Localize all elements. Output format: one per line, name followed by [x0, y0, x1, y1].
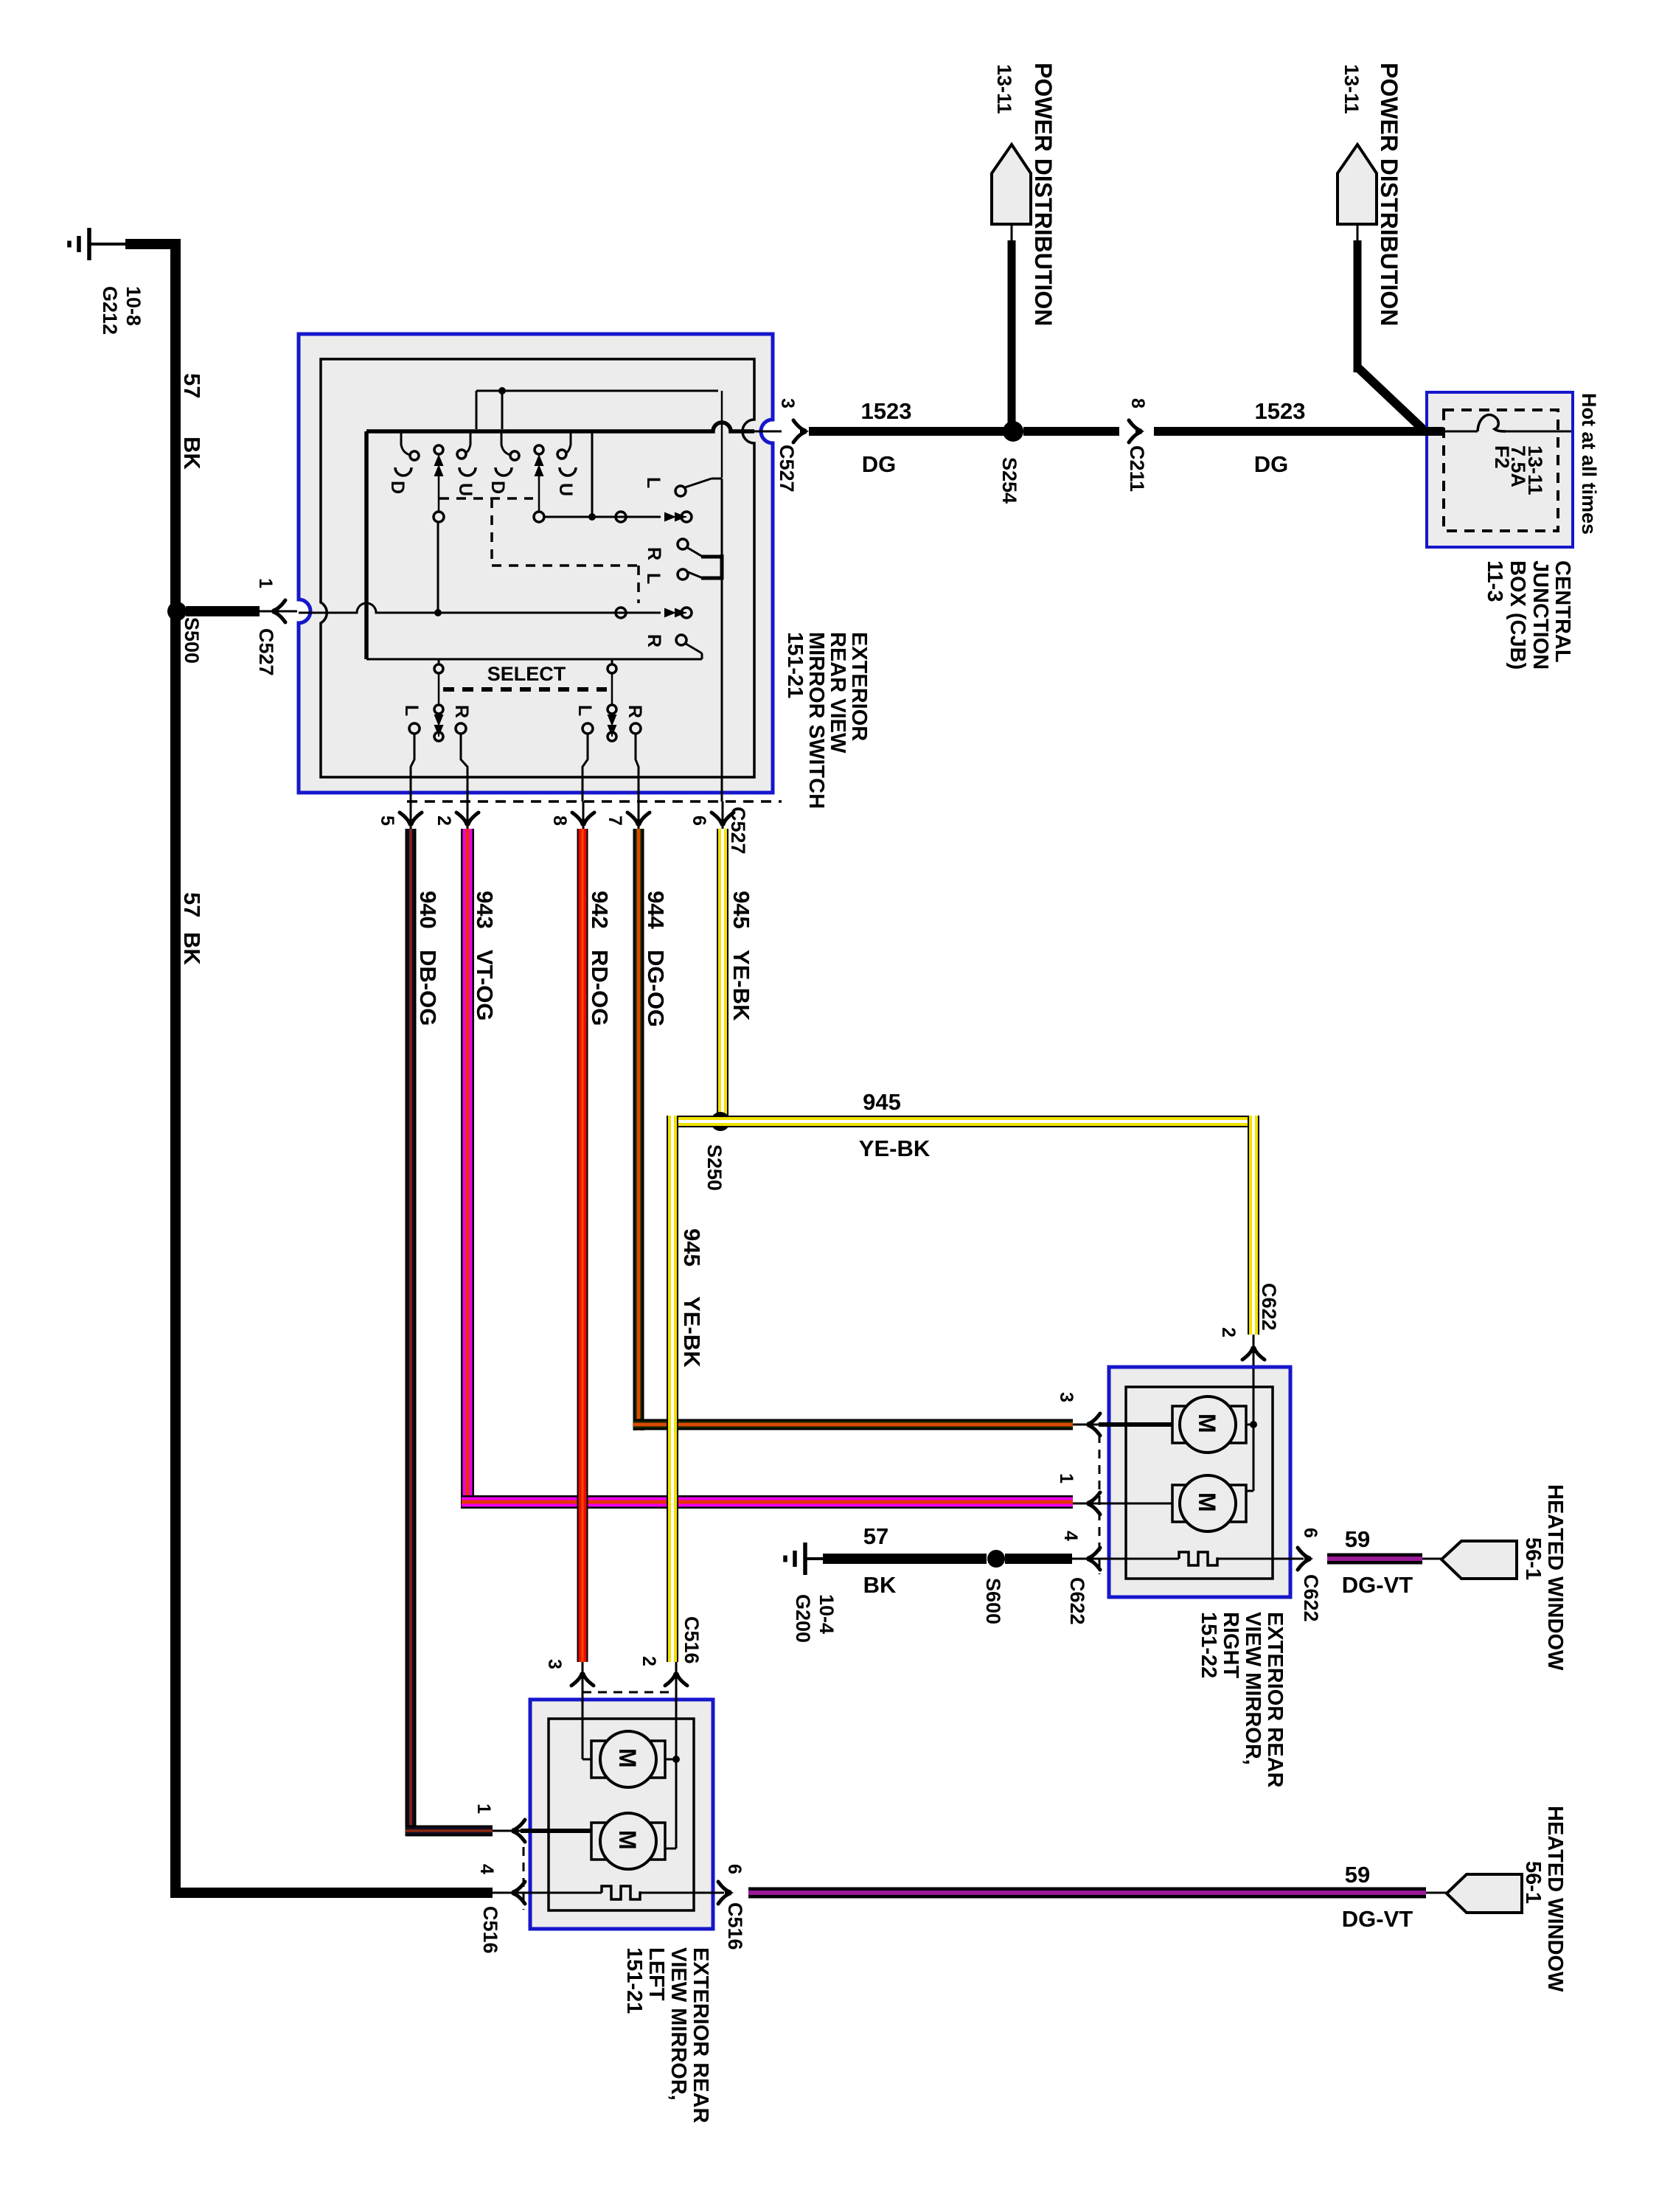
svg-text:HEATED WINDOW: HEATED WINDOW	[1543, 1806, 1567, 1992]
svg-text:57: 57	[179, 373, 205, 398]
svg-text:R: R	[644, 547, 664, 560]
contact cup U of group 731	[560, 467, 576, 476]
svg-text:1523: 1523	[1255, 398, 1306, 424]
connector arrow C527 pin 1	[270, 600, 285, 622]
svg-text:VIEW MIRROR,: VIEW MIRROR,	[667, 1947, 690, 2101]
svg-text:C527: C527	[776, 445, 798, 493]
svg-text:R: R	[451, 705, 472, 718]
svg-text:M: M	[1194, 1492, 1220, 1512]
svg-text:S250: S250	[703, 1144, 726, 1191]
svg-text:C527: C527	[255, 628, 277, 676]
svg-text:L: L	[574, 705, 595, 716]
svg-text:DG-VT: DG-VT	[1342, 1906, 1413, 1932]
right mirror heater element	[1096, 1558, 1179, 1560]
switch line y701 to upper R pole	[544, 516, 661, 518]
svg-text:3: 3	[544, 1659, 565, 1669]
svg-text:59: 59	[1345, 1526, 1370, 1552]
svg-text:13-11: 13-11	[993, 64, 1015, 114]
wire 940 DB-OG	[406, 829, 417, 1836]
svg-text:13-11: 13-11	[1340, 64, 1363, 114]
wire 943 VT-OG	[461, 829, 474, 1509]
svg-text:G212: G212	[99, 286, 121, 335]
svg-text:BK: BK	[863, 1572, 897, 1598]
svg-text:DB-OG: DB-OG	[415, 950, 441, 1026]
splice S600	[987, 1550, 1005, 1568]
switch D/U group at x=595	[401, 431, 410, 455]
svg-text:JUNCTION: JUNCTION	[1528, 560, 1552, 669]
svg-text:LEFT: LEFT	[644, 1947, 668, 2001]
svg-text:59: 59	[1345, 1862, 1370, 1888]
svg-text:YE-BK: YE-BK	[859, 1135, 931, 1161]
svg-text:DG-VT: DG-VT	[1342, 1572, 1413, 1598]
svg-text:EXTERIOR REAR: EXTERIOR REAR	[1263, 1612, 1287, 1788]
svg-text:944: 944	[643, 891, 669, 929]
wire 944 DG-OG	[633, 829, 644, 1430]
R/L middle contact blades and node	[678, 539, 688, 549]
ground G212	[69, 228, 108, 260]
svg-text:4: 4	[476, 1864, 497, 1874]
svg-text:RD-OG: RD-OG	[587, 950, 613, 1026]
svg-text:BK: BK	[179, 437, 205, 470]
svg-text:C622: C622	[1066, 1577, 1088, 1625]
exterior rear view mirror switch box	[299, 334, 773, 793]
C527 pin 5 arrow	[410, 801, 412, 830]
svg-text:M: M	[614, 1748, 641, 1768]
svg-text:56-1: 56-1	[1521, 1861, 1545, 1904]
left mirror motor 1	[582, 1700, 584, 1759]
right mirror pin 6 arrow	[1298, 1548, 1313, 1570]
svg-text:D: D	[387, 481, 408, 494]
svg-text:CENTRAL: CENTRAL	[1551, 560, 1574, 663]
switch pin 3 arrow C527	[793, 420, 809, 442]
svg-text:2: 2	[1218, 1327, 1239, 1338]
ground G200	[785, 1543, 824, 1575]
lower R pole (horizontal)	[664, 608, 686, 618]
svg-text:57: 57	[863, 1523, 888, 1549]
fuse wire and element F2	[1424, 427, 1444, 436]
svg-text:5: 5	[377, 815, 397, 826]
svg-text:1: 1	[473, 1804, 494, 1814]
svg-text:3: 3	[777, 398, 798, 408]
svg-text:C211: C211	[1126, 445, 1148, 492]
svg-text:R: R	[625, 705, 645, 718]
right mirror inner outline	[1126, 1387, 1273, 1579]
SELECT switch at x=830	[611, 659, 613, 664]
svg-text:POWER DISTRIBUTION: POWER DISTRIBUTION	[1030, 63, 1057, 326]
svg-text:L: L	[643, 477, 664, 488]
connector C622 pin 2 arrow	[1253, 1335, 1255, 1368]
C527 pin 6 arrow	[722, 801, 724, 830]
svg-text:57: 57	[179, 892, 205, 917]
power distribution connector 1	[992, 145, 1031, 224]
power distribution connector 2	[1338, 145, 1377, 224]
svg-text:6: 6	[724, 1864, 745, 1874]
svg-text:151-21: 151-21	[783, 632, 807, 698]
svg-text:DG-OG: DG-OG	[643, 950, 669, 1027]
connector C527 dashed line	[407, 800, 782, 803]
wire 940 into pin 1	[521, 1829, 591, 1833]
switch inner outline	[321, 359, 754, 777]
left mirror motor 2	[591, 1823, 665, 1860]
svg-text:G200: G200	[792, 1594, 814, 1643]
svg-text:4: 4	[1060, 1531, 1081, 1541]
svg-text:YE-BK: YE-BK	[679, 1296, 705, 1368]
heated window connector 1	[1441, 1541, 1517, 1579]
right mirror pin 1 arrow	[1073, 1503, 1109, 1505]
svg-text:EXTERIOR REAR: EXTERIOR REAR	[689, 1947, 712, 2124]
switch power bus from pin 3	[366, 422, 754, 431]
right mirror pin 4 arrow	[1072, 1558, 1109, 1560]
svg-text:C622: C622	[1258, 1283, 1280, 1331]
svg-text:VT-OG: VT-OG	[472, 950, 498, 1020]
svg-text:RIGHT: RIGHT	[1219, 1612, 1242, 1679]
connector C516 dashed segments	[582, 1691, 676, 1694]
wire 945 YE-BK branch to left mirror	[667, 1116, 678, 1662]
svg-text:6: 6	[689, 815, 709, 826]
contact cup D of group 731	[495, 467, 512, 476]
svg-text:U: U	[455, 483, 476, 496]
left mirror pin 2 arrow	[675, 1662, 678, 1700]
switch top line	[476, 390, 718, 392]
left mirror inner outline	[549, 1719, 694, 1910]
svg-text:C516: C516	[479, 1906, 501, 1954]
splice S254	[1003, 421, 1023, 442]
svg-text:2: 2	[434, 815, 454, 826]
svg-text:151-21: 151-21	[622, 1947, 646, 2014]
svg-text:1: 1	[1056, 1473, 1077, 1484]
svg-text:2: 2	[639, 1656, 659, 1666]
right mirror motor 1	[1099, 1422, 1172, 1427]
svg-text:Hot at all times: Hot at all times	[1578, 393, 1600, 535]
svg-text:BK: BK	[179, 932, 205, 965]
wire 57 BK right mirror	[823, 1554, 987, 1564]
svg-text:3: 3	[1056, 1392, 1077, 1402]
svg-text:S600: S600	[982, 1578, 1004, 1624]
svg-text:C527: C527	[727, 807, 749, 855]
connector C622 dashed segment	[1099, 1434, 1101, 1574]
exterior rear view mirror left box	[530, 1700, 713, 1929]
svg-text:R: R	[644, 634, 664, 647]
wire 942 RD-OG	[577, 829, 588, 1662]
SELECT row contacts and labels	[409, 723, 420, 734]
L contact blade top	[675, 486, 686, 496]
svg-text:151-22: 151-22	[1197, 1612, 1220, 1678]
right mirror internal feed from pin 2	[1253, 1368, 1255, 1491]
SELECT dashed coupling	[443, 687, 607, 692]
svg-text:MIRROR SWITCH: MIRROR SWITCH	[804, 632, 828, 809]
svg-text:945: 945	[728, 891, 754, 929]
line from node down to pin 6	[721, 479, 723, 554]
svg-text:942: 942	[587, 891, 613, 929]
bottom R blade	[676, 635, 686, 645]
central junction box CJB	[1427, 392, 1573, 547]
switch feed line y894	[366, 658, 702, 661]
splice S500	[167, 602, 187, 621]
svg-text:940: 940	[415, 891, 441, 929]
svg-text:DG: DG	[1254, 451, 1289, 477]
wire 59 DG-VT right mirror	[1327, 1554, 1422, 1565]
svg-text:56-1: 56-1	[1521, 1537, 1545, 1580]
wire 1523 DG segment 1	[809, 427, 1013, 436]
svg-text:L: L	[401, 705, 422, 716]
svg-text:6: 6	[1300, 1528, 1321, 1538]
svg-text:YE-BK: YE-BK	[728, 950, 754, 1021]
svg-text:D: D	[487, 481, 508, 494]
heated window connector 2	[1447, 1874, 1522, 1913]
svg-text:10-4: 10-4	[815, 1594, 838, 1634]
svg-text:8: 8	[1127, 398, 1148, 408]
wire 1523 DG segment 2	[1023, 427, 1119, 436]
right mirror motor 2	[1096, 1503, 1172, 1505]
svg-text:S254: S254	[998, 457, 1020, 504]
svg-text:POWER DISTRIBUTION: POWER DISTRIBUTION	[1376, 63, 1402, 326]
svg-text:10-8: 10-8	[122, 286, 145, 326]
svg-text:1523: 1523	[861, 398, 912, 424]
left mirror pin 3 arrow	[582, 1662, 584, 1700]
wire 945 YE-BK branch to right mirror	[667, 1116, 1259, 1127]
fuse F2 dashed box	[1444, 410, 1558, 531]
wire 945 YE-BK from pin 6	[717, 829, 728, 1127]
svg-text:M: M	[1194, 1413, 1220, 1433]
svg-text:M: M	[614, 1830, 641, 1850]
svg-text:7: 7	[605, 815, 625, 826]
svg-text:EXTERIOR: EXTERIOR	[847, 632, 871, 741]
svg-text:S500: S500	[181, 617, 203, 664]
svg-text:SELECT: SELECT	[487, 663, 566, 685]
switch pin1 line y831	[299, 603, 661, 613]
SELECT switch at x=595	[438, 659, 440, 664]
left mirror internal feed from pin 2	[675, 1700, 678, 1848]
switch line x974 down to L contact	[721, 391, 723, 419]
svg-text:BOX (CJB): BOX (CJB)	[1506, 560, 1529, 669]
power distribution feed 2 (thick)	[1354, 240, 1362, 372]
left mirror heater element	[549, 1892, 602, 1894]
C527 pin 7 arrow	[638, 801, 640, 830]
switch bus left drop	[364, 431, 369, 659]
switch D/U group at x=731	[501, 431, 510, 455]
pole of group 595	[434, 445, 443, 454]
contact cup U of group 595	[459, 467, 476, 476]
svg-text:13-11: 13-11	[1524, 445, 1546, 495]
wire S500 to switch pin 1	[186, 606, 260, 616]
svg-text:VIEW MIRROR,: VIEW MIRROR,	[1241, 1612, 1265, 1765]
svg-text:C516: C516	[724, 1902, 746, 1950]
left mirror pin 1 arrow	[509, 1820, 525, 1842]
svg-text:HEATED WINDOW: HEATED WINDOW	[1543, 1484, 1567, 1671]
svg-text:945: 945	[863, 1089, 901, 1115]
wire 57 BK from G212 (thick black)	[125, 239, 181, 249]
pole of group 731	[535, 445, 543, 454]
svg-text:DG: DG	[862, 451, 897, 477]
contact cup D of group 595	[395, 467, 411, 476]
svg-text:C516: C516	[681, 1616, 703, 1664]
svg-text:1: 1	[255, 578, 276, 588]
svg-text:11-3: 11-3	[1483, 560, 1506, 602]
svg-text:945: 945	[679, 1228, 705, 1267]
C527 pin 8 arrow	[582, 801, 585, 830]
lines from SELECT contacts to pins	[411, 734, 414, 801]
svg-text:L: L	[643, 573, 664, 584]
svg-text:8: 8	[549, 815, 570, 826]
right mirror pin 3 arrow	[1073, 1424, 1109, 1426]
svg-text:C622: C622	[1300, 1574, 1322, 1622]
wire 59 DG-VT left mirror	[748, 1888, 1426, 1899]
connector C211 arrow	[1129, 420, 1144, 442]
upper R pole (horizontal)	[664, 512, 686, 522]
splice S250	[711, 1112, 730, 1131]
exterior rear view mirror right box	[1109, 1367, 1290, 1597]
dashed coupling upper	[439, 498, 639, 603]
power distribution feed 1 (thick)	[1008, 240, 1016, 431]
svg-text:U: U	[555, 483, 576, 496]
left mirror pin 6 arrow	[718, 1882, 734, 1904]
C527 pin 2 arrow	[467, 801, 469, 830]
svg-text:REAR VIEW: REAR VIEW	[826, 632, 849, 754]
svg-text:943: 943	[472, 891, 498, 929]
left mirror pin 4 arrow	[509, 1882, 525, 1904]
